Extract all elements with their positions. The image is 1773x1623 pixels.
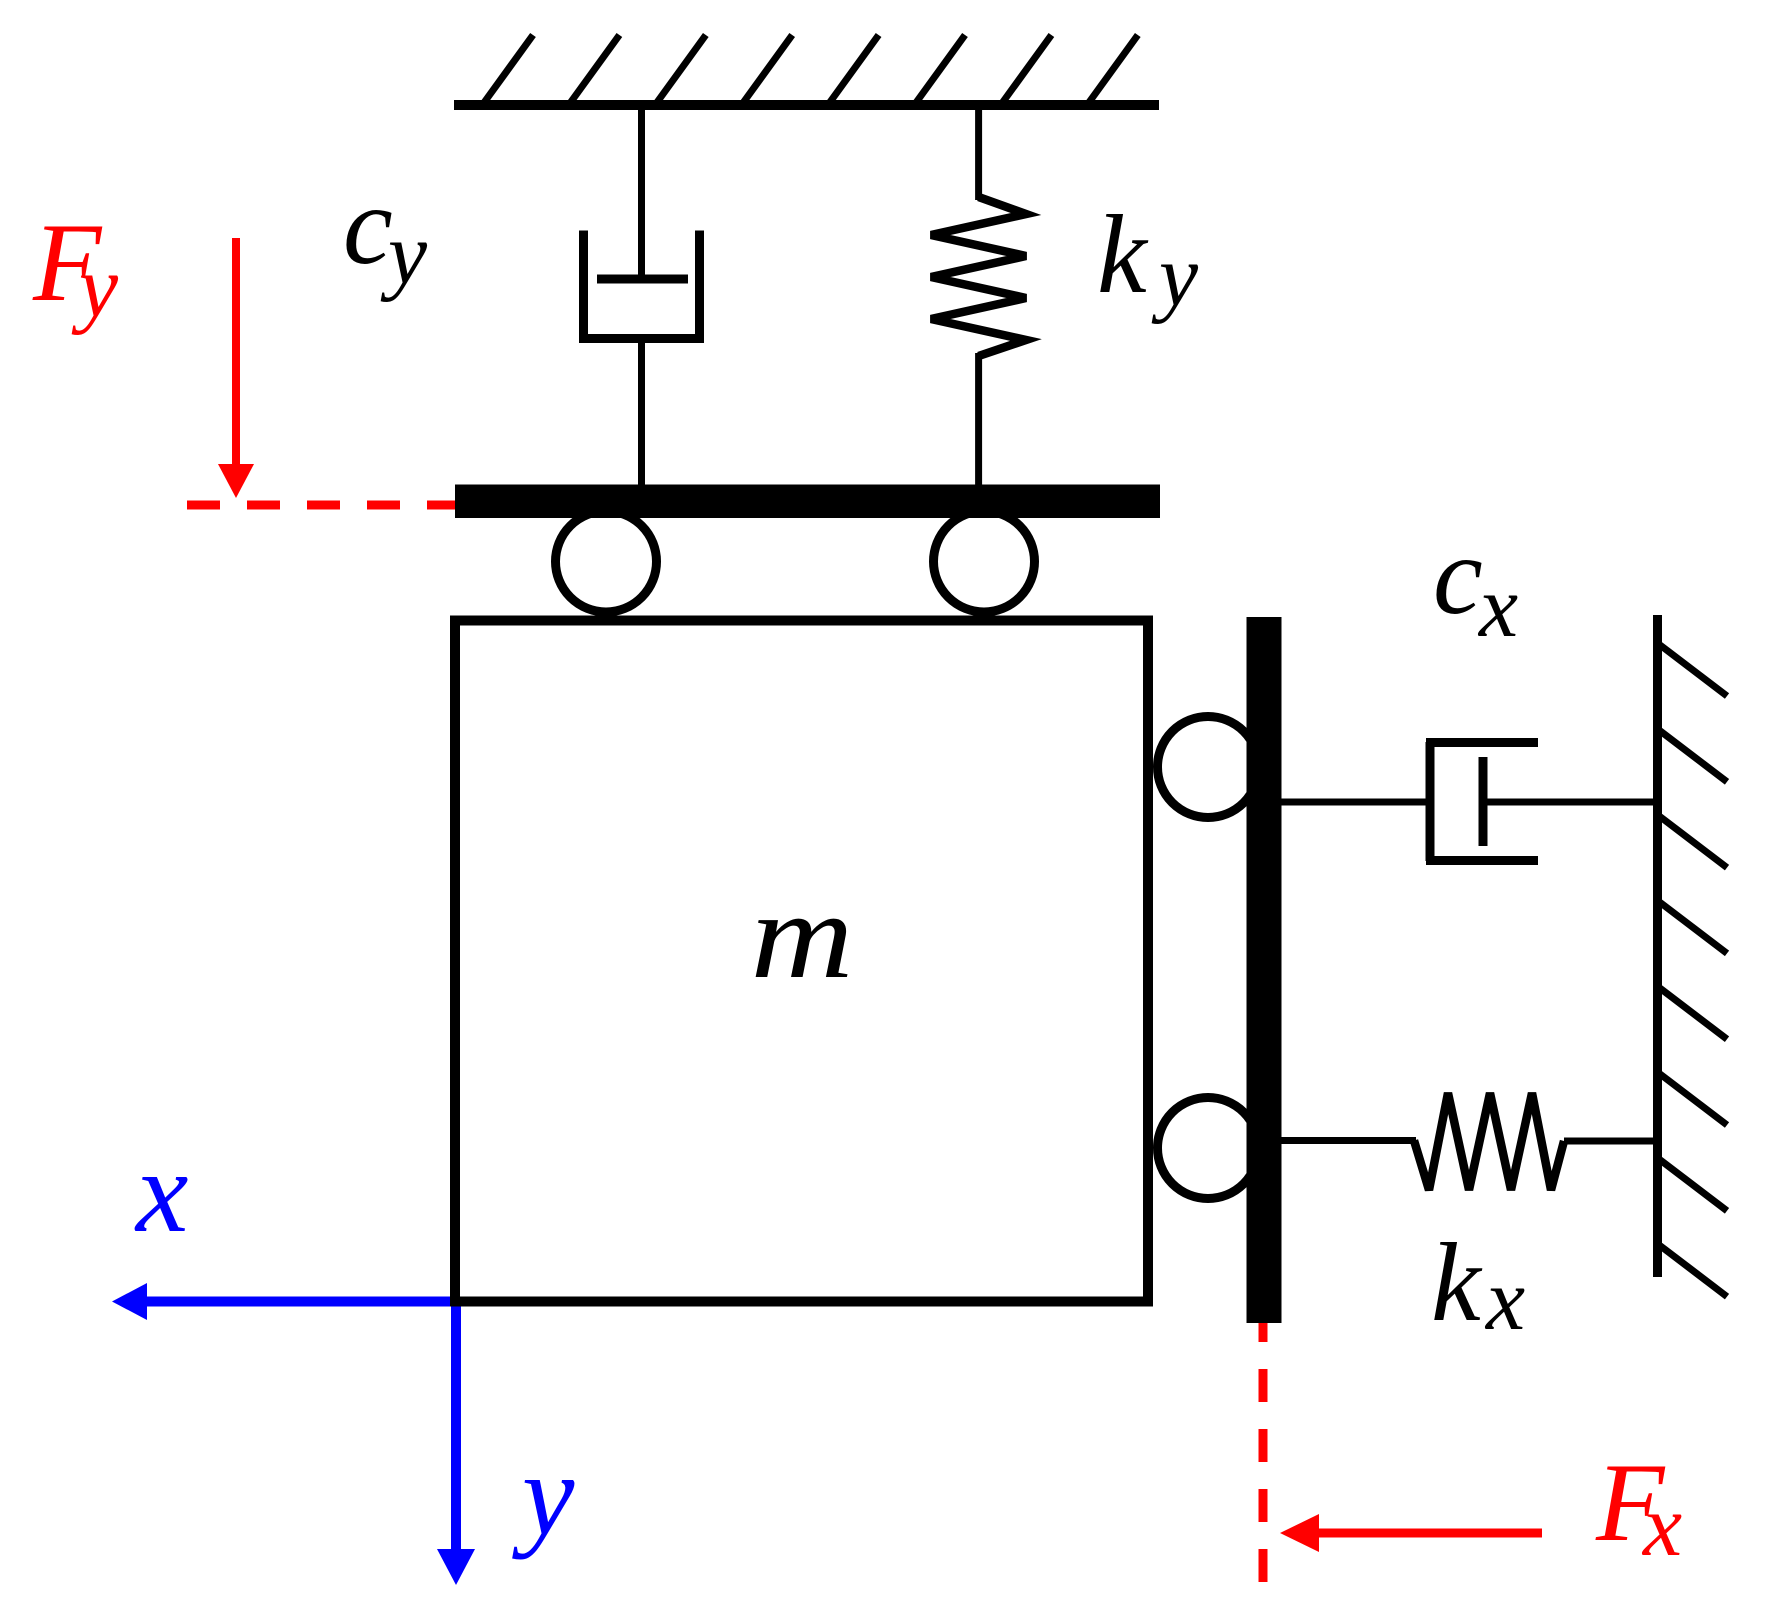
svg-text:y: y: [380, 206, 428, 303]
right wall line: [1653, 615, 1662, 1277]
damper cy (vertical dashpot): [579, 105, 704, 490]
svg-text:x: x: [134, 1126, 188, 1257]
svg-text:c: c: [1433, 514, 1483, 638]
force arrow Fx (red, leftward): [1280, 1514, 1542, 1552]
damper cx (horizontal dashpot): [1281, 742, 1658, 861]
svg-text:y: y: [71, 239, 119, 336]
mass m (square): [455, 621, 1148, 1302]
ceiling line: [454, 100, 1159, 110]
y axis (blue, downward): [437, 1302, 475, 1586]
dashed action line of Fy: [187, 501, 456, 510]
svg-text:k: k: [1097, 193, 1149, 317]
roller (right side upper): [1158, 717, 1259, 818]
svg-text:x: x: [1484, 1252, 1525, 1349]
roller (top left): [556, 511, 657, 612]
spring kx (horizontal): [1281, 1093, 1658, 1190]
svg-text:c: c: [343, 164, 393, 288]
rigid bar right of mass (vertical): [1247, 617, 1282, 1323]
spring ky (vertical): [931, 105, 1026, 490]
dashed action line of Fx (vertical, red): [1259, 1309, 1268, 1590]
ceiling hatch marks: [483, 35, 1138, 104]
x axis (blue, leftward): [112, 1283, 456, 1320]
roller (top right): [934, 511, 1035, 612]
svg-text:m: m: [751, 867, 854, 1004]
svg-text:k: k: [1431, 1221, 1483, 1345]
force arrow Fy (red, downward): [218, 238, 254, 498]
svg-text:x: x: [1477, 559, 1518, 656]
roller (right side lower): [1158, 1098, 1259, 1199]
rigid bar above mass: [455, 485, 1160, 519]
svg-text:y: y: [1151, 228, 1199, 325]
svg-text:y: y: [512, 1429, 575, 1560]
right wall hatch marks: [1660, 645, 1727, 1297]
svg-text:x: x: [1641, 1478, 1682, 1575]
